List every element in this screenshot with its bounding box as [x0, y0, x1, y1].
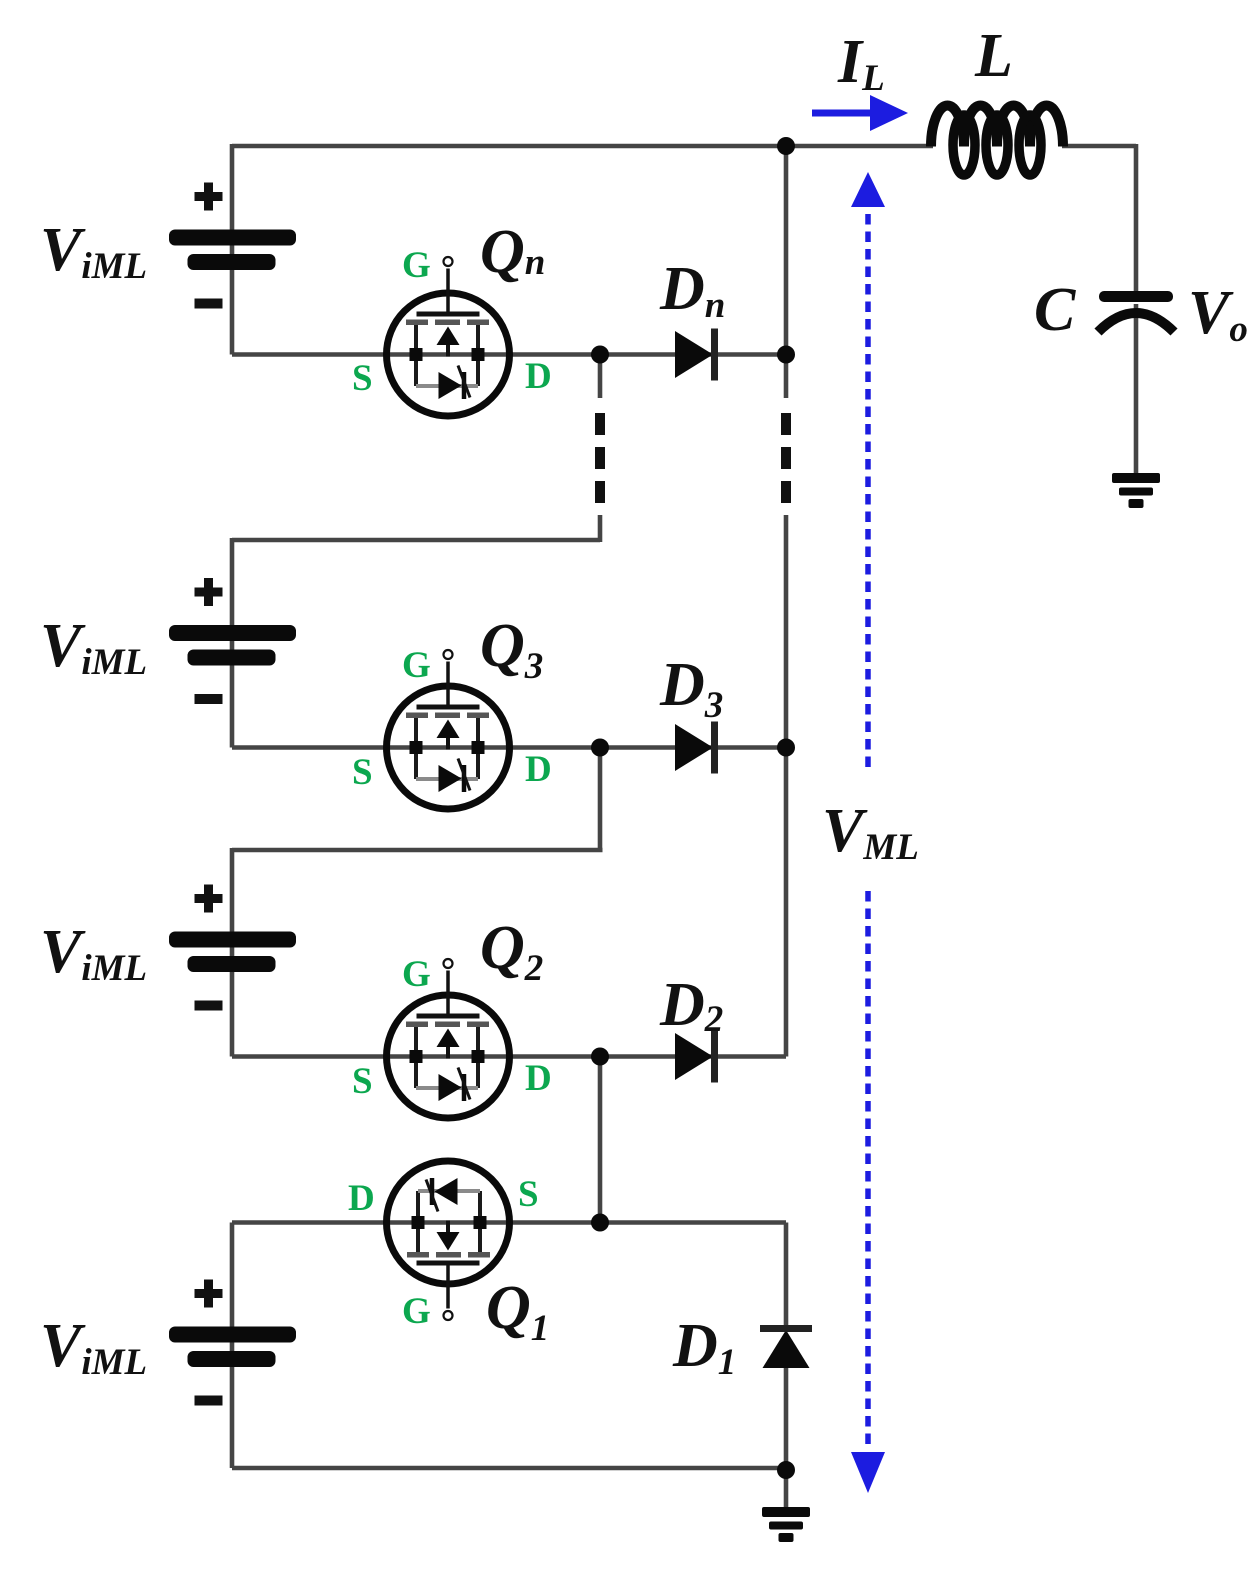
node Q3 drain	[591, 739, 609, 757]
VML measurement dotted line upper	[865, 214, 871, 772]
svg-text:S: S	[352, 358, 373, 399]
svg-text:ViML: ViML	[40, 216, 147, 287]
transistor Q1	[387, 1161, 510, 1320]
wire right bus upper	[784, 146, 789, 398]
svg-text:D: D	[525, 749, 552, 790]
svg-text:ViML: ViML	[40, 612, 147, 683]
svg-text:D2: D2	[659, 971, 723, 1040]
wire bottom rail	[232, 1466, 786, 1471]
transistor Q2	[387, 959, 510, 1118]
wire right bus lower	[784, 515, 789, 1057]
svg-text:Qn: Qn	[480, 218, 545, 286]
svg-text:G: G	[402, 245, 431, 286]
svg-text:Q1: Q1	[486, 1274, 549, 1349]
svg-text:Q3: Q3	[480, 612, 543, 687]
wire Q2 source-drain line	[232, 1054, 786, 1059]
node Q2 drain	[591, 1048, 609, 1066]
wire Q3 source-drain line	[232, 745, 786, 750]
svg-text:VML: VML	[822, 797, 919, 868]
svg-text:C: C	[1034, 276, 1076, 344]
wire ground stub	[784, 1470, 789, 1508]
wire output branch lower	[1134, 304, 1139, 474]
wire left dash column stub lower	[598, 515, 603, 542]
wire battery2 left rail	[230, 538, 235, 748]
svg-text:IL: IL	[837, 28, 885, 99]
battery ViML stage1	[169, 183, 296, 304]
svg-text:ViML: ViML	[40, 1312, 147, 1383]
wire battery4 left rail	[230, 1223, 235, 1469]
wire top rail left	[232, 144, 933, 149]
inductor L coil	[931, 106, 1063, 176]
capacitor C	[1098, 291, 1174, 332]
node D3 cathode	[777, 739, 795, 757]
current IL arrow	[812, 95, 908, 131]
wire output branch upper	[1134, 144, 1139, 292]
transistor Q3	[387, 650, 510, 809]
ground bottom	[762, 1507, 810, 1542]
node ground junction	[777, 1461, 795, 1479]
battery ViML stage4	[169, 1280, 296, 1401]
svg-text:S: S	[518, 1174, 539, 1215]
wire Q2 drain to Q1 source stub	[598, 1057, 603, 1223]
svg-text:G: G	[402, 1291, 431, 1332]
wire D1 branch upper	[784, 1223, 789, 1331]
svg-text:Dn: Dn	[659, 255, 725, 326]
svg-text:D: D	[348, 1178, 375, 1219]
diode D2	[675, 1031, 715, 1083]
svg-text:D1: D1	[672, 1312, 736, 1383]
svg-text:D: D	[525, 356, 552, 397]
wire right bus dashed break	[781, 413, 791, 508]
node junction top	[777, 137, 795, 155]
diode D1	[760, 1329, 812, 1369]
node Q1 source	[591, 1214, 609, 1232]
wire left dash column dashed break	[595, 413, 605, 508]
svg-text:L: L	[974, 22, 1013, 90]
svg-text:ViML: ViML	[40, 918, 147, 989]
VML measurement arrow bottom head	[851, 1452, 885, 1493]
node Qn drain	[591, 346, 609, 364]
svg-text:G: G	[402, 645, 431, 686]
wire stage2 top rail	[232, 538, 600, 543]
node Dn cathode	[777, 346, 795, 364]
VML measurement arrow top head	[851, 172, 885, 207]
wire stage2 to stage3 link	[232, 848, 603, 853]
diode Dn	[675, 329, 715, 381]
wire left dash column stub upper	[598, 355, 603, 399]
svg-text:S: S	[352, 752, 373, 793]
wire stage2 node riser	[598, 748, 603, 851]
wire Qn source-drain line	[232, 352, 786, 357]
svg-text:S: S	[352, 1061, 373, 1102]
diode D3	[675, 722, 715, 774]
battery ViML stage3	[169, 885, 296, 1006]
wire battery1 left rail	[230, 144, 235, 355]
svg-text:Q2: Q2	[480, 914, 543, 989]
transistor Qn	[387, 257, 510, 416]
svg-text:D3: D3	[659, 651, 723, 726]
svg-text:D: D	[525, 1058, 552, 1099]
svg-text:Vo: Vo	[1188, 279, 1248, 350]
wire D1 branch lower	[784, 1366, 789, 1470]
VML measurement dotted line lower	[865, 891, 871, 1447]
wire battery3 left rail	[230, 848, 235, 1057]
ground output	[1112, 473, 1160, 508]
battery ViML stage2	[169, 578, 296, 699]
wire top rail right of inductor	[1062, 144, 1136, 149]
wire Q1 drain-source line	[232, 1220, 786, 1225]
svg-text:G: G	[402, 954, 431, 995]
